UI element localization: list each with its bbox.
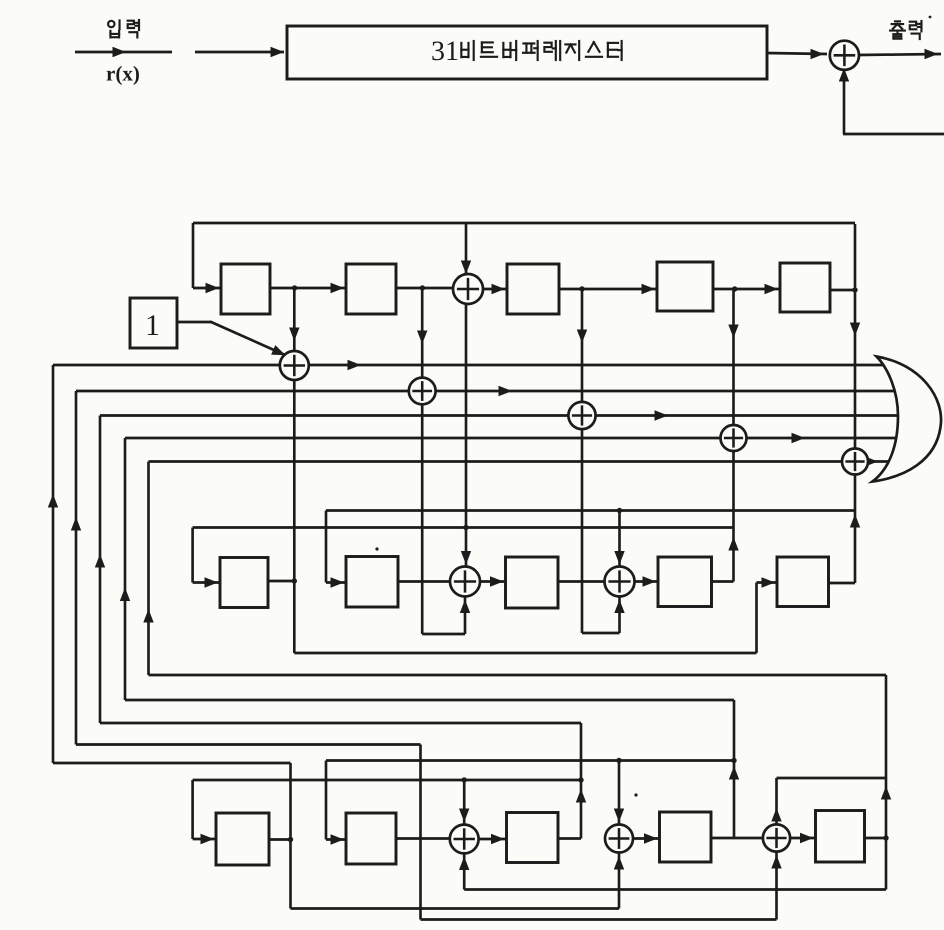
svg-text:r(x): r(x) [106,62,140,86]
svg-text:31: 31 [431,36,459,67]
svg-text:1: 1 [145,309,160,342]
